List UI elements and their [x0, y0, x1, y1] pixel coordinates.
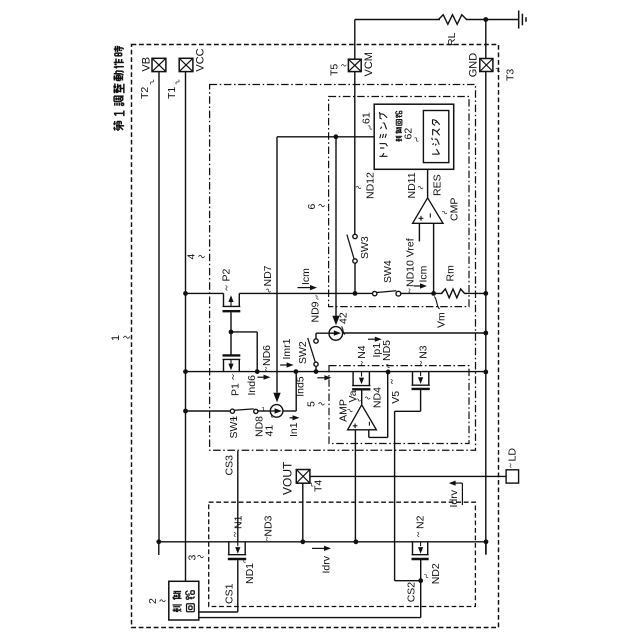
- wire control to N2 gate: [199, 617, 421, 619]
- block 3 border (dashed): [209, 502, 476, 606]
- op-amp comparator CMP: [413, 198, 443, 224]
- svg-text:T1: T1: [166, 87, 178, 99]
- svg-text:Icm: Icm: [418, 265, 430, 282]
- AMP + input wire down to ND3 rail: [354, 430, 356, 542]
- junction dot feedback/ND5: [386, 370, 391, 375]
- svg-text:P2: P2: [221, 268, 233, 281]
- svg-text:ND2: ND2: [430, 563, 442, 584]
- svg-text:V5: V5: [390, 391, 402, 404]
- switch SW3: [353, 234, 357, 238]
- junction dot ND5/GND line: [483, 370, 488, 375]
- resistor RL: [439, 15, 467, 25]
- wire top from VCM to ground: [355, 19, 440, 21]
- junction RL/T3: [483, 17, 488, 22]
- svg-text:CS2: CS2: [406, 582, 418, 603]
- wire T4 down to ND3 rail: [302, 483, 304, 542]
- wire VOUT to LD: [310, 475, 506, 477]
- svg-text:2: 2: [147, 598, 159, 604]
- wire rail ND3: [159, 541, 486, 543]
- svg-text:ND1: ND1: [244, 563, 256, 584]
- svg-text:SW4: SW4: [382, 260, 394, 283]
- svg-text:VB: VB: [140, 57, 152, 72]
- resistor Rm: [442, 289, 465, 298]
- svg-text:N2: N2: [415, 515, 427, 529]
- switch SW2: [314, 339, 318, 343]
- svg-text:T3: T3: [505, 69, 517, 81]
- junction dot SW3/rail: [353, 291, 358, 296]
- svg-text:Idrv: Idrv: [448, 489, 460, 507]
- junction dot P gates: [229, 330, 234, 335]
- svg-text:Icm: Icm: [300, 268, 312, 285]
- junction dot V5/N2 gate: [418, 578, 423, 583]
- current arrow In1: [290, 417, 294, 419]
- svg-text:1: 1: [110, 335, 122, 341]
- svg-text:3: 3: [187, 555, 199, 561]
- title 第1調整動作時: [113, 127, 115, 131]
- node dot ND12/42-line: [334, 134, 339, 139]
- wire GND vertical down right side: [485, 72, 487, 555]
- svg-text:Ind6: Ind6: [246, 375, 258, 396]
- junction dot AMP+/ND3: [354, 539, 359, 544]
- svg-text:ND12: ND12: [365, 172, 377, 199]
- junction dot Rm/CMP-: [431, 291, 436, 296]
- current source 41: [270, 405, 283, 418]
- wire VCC vertical: [185, 72, 187, 582]
- svg-text:RL: RL: [446, 32, 458, 46]
- current arrow Idrv right: [461, 483, 463, 505]
- register box 62: [423, 111, 448, 163]
- svg-text:LD: LD: [507, 448, 519, 462]
- svg-text:T5: T5: [329, 64, 341, 76]
- N1 gate lead CS1: [237, 560, 239, 612]
- wire rail ND6-ND5: [186, 371, 486, 373]
- block 4 border (dash-dot): [210, 85, 476, 451]
- svg-text:42: 42: [338, 312, 350, 324]
- svg-text:ND6: ND6: [261, 345, 273, 366]
- svg-text:62: 62: [403, 128, 415, 140]
- junction dot 42-wire/GND line: [483, 331, 488, 336]
- CMP - input wire to ND10 rail: [433, 223, 435, 293]
- junction dot VOUT/ND3: [300, 539, 305, 544]
- switch SW4: [373, 291, 377, 295]
- terminal T1 VCC: [179, 58, 193, 71]
- svg-text:SW1: SW1: [228, 416, 240, 439]
- current arrow Icm left: [298, 287, 312, 289]
- svg-text:6: 6: [306, 204, 318, 210]
- ground symbol: [518, 11, 520, 29]
- block 6 border (dash-dot): [329, 97, 469, 307]
- wire RES from trimming box to CMP output: [427, 169, 429, 198]
- chip boundary box 1 (dashed): [132, 45, 499, 628]
- wire control to N1 gate: [199, 611, 238, 613]
- svg-text:ND5: ND5: [381, 340, 393, 361]
- svg-text:ND11: ND11: [406, 172, 418, 198]
- junction dot In1 feed: [294, 369, 299, 374]
- N2 gate lead to V5 junction and CS2: [420, 559, 422, 617]
- svg-text:ND10 Vref: ND10 Vref: [405, 238, 417, 287]
- CMP + input stub Vref: [418, 223, 420, 241]
- terminal T3 GND: [480, 59, 493, 72]
- wire ND12 to current source 42: [335, 137, 337, 318]
- GND stub below ND3 rail: [485, 542, 487, 555]
- wire VB vertical: [158, 72, 160, 542]
- svg-text:T4: T4: [313, 480, 325, 492]
- terminal T4 VOUT: [296, 470, 310, 484]
- svg-text:Va: Va: [347, 390, 359, 402]
- transistor N3 (NMOS): [412, 372, 414, 386]
- current arrow Ind6: [257, 376, 265, 378]
- svg-text:VCC: VCC: [194, 48, 206, 71]
- transistor P2 (PMOS): [223, 293, 225, 306]
- AMP - input feedback to ND5 rail: [368, 430, 370, 438]
- current arrow Idrv left: [312, 547, 325, 549]
- wire rail ND10 from SW4 to Rm: [401, 292, 443, 294]
- wire VCM up to RL: [354, 20, 356, 60]
- svg-text:T2: T2: [139, 87, 151, 99]
- svg-text:VOUT: VOUT: [281, 461, 295, 495]
- wire 41 to ND6 rail: [283, 410, 296, 412]
- wire VCM down into chip to SW3: [354, 72, 356, 235]
- svg-text:Rm: Rm: [445, 265, 457, 282]
- svg-text:4: 4: [186, 254, 198, 260]
- svg-text:Idrv: Idrv: [321, 555, 333, 573]
- wire N4 gate to AMP output Va: [361, 389, 363, 405]
- svg-text:VCM: VCM: [363, 52, 375, 76]
- junction dot GND/ND3: [484, 539, 489, 544]
- switch SW1 (closed): [230, 409, 234, 413]
- transistor N1 (NMOS): [228, 542, 230, 555]
- terminal T5 VCM: [348, 59, 361, 71]
- op-amp AMP: [348, 405, 377, 430]
- svg-text:GND: GND: [468, 53, 480, 78]
- svg-text:61: 61: [361, 112, 373, 124]
- junction dot VCC/ND6: [183, 369, 188, 374]
- junction dot Rm/GND line: [483, 291, 488, 296]
- svg-text:SW2: SW2: [297, 341, 309, 364]
- svg-text:N3: N3: [418, 345, 430, 359]
- junction dot VB end: [156, 539, 161, 544]
- wire gates to ND6 rail: [231, 331, 257, 333]
- wire V5 from N3 gate to N2 gate: [420, 389, 422, 411]
- arrow into current source 41: [273, 393, 280, 403]
- svg-text:ND7: ND7: [262, 265, 274, 286]
- wire T3 up to RL junction: [485, 20, 487, 59]
- current arrow Ind5: [317, 377, 326, 379]
- junction dot gates/ND6: [255, 369, 260, 374]
- wire rail ND9 from VCC mirror to SW4: [186, 292, 224, 294]
- wire SW1 to current source 41: [258, 410, 270, 412]
- trimming control circuit box 61: [374, 104, 454, 169]
- block 5 border (dash-dot): [329, 366, 469, 444]
- wire 42 to SW2: [315, 333, 317, 339]
- svg-text:Vm: Vm: [436, 312, 448, 328]
- svg-text:N1: N1: [233, 515, 245, 529]
- svg-text:RES: RES: [432, 174, 444, 196]
- svg-text:Imr1: Imr1: [281, 338, 293, 359]
- svg-text:ND9: ND9: [310, 301, 322, 322]
- wire ND7 vertical: [276, 137, 278, 393]
- VB stub below rail: [158, 542, 160, 555]
- wire SW1 from VCC line: [186, 410, 231, 412]
- current arrow Icm right: [414, 285, 422, 287]
- svg-text:5: 5: [306, 401, 318, 407]
- transistor N4 (NMOS): [352, 372, 354, 386]
- svg-text:41: 41: [264, 425, 276, 437]
- current arrow Ip1: [368, 338, 376, 340]
- svg-text:In1: In1: [288, 422, 300, 437]
- svg-text:SW3: SW3: [359, 236, 371, 259]
- svg-text:ND4: ND4: [372, 387, 384, 408]
- svg-text:CS3: CS3: [224, 455, 236, 476]
- svg-text:CMP: CMP: [449, 198, 461, 221]
- current arrow Imr1: [280, 364, 288, 366]
- control circuit box 2: [169, 581, 199, 620]
- junction dot SW2/ND6: [314, 369, 319, 374]
- junction dot on VCC line: [183, 291, 188, 296]
- current source 42: [329, 327, 343, 341]
- load LD box: [506, 470, 518, 483]
- terminal T2 VB: [152, 58, 166, 71]
- arrow into current source 42: [332, 316, 339, 325]
- transistor N2 (NMOS): [412, 542, 414, 555]
- svg-text:ND3: ND3: [263, 515, 275, 536]
- transistor P1 (PMOS, diode connected): [230, 332, 232, 355]
- wire ND12 from ND7 line to trimming box: [277, 136, 374, 138]
- svg-text:N4: N4: [356, 345, 368, 359]
- svg-text:CS1: CS1: [224, 583, 236, 604]
- signal line CS3 from block4 border: [237, 451, 239, 542]
- svg-text:P1: P1: [230, 383, 242, 396]
- junction dot VCC/SW1: [183, 409, 188, 414]
